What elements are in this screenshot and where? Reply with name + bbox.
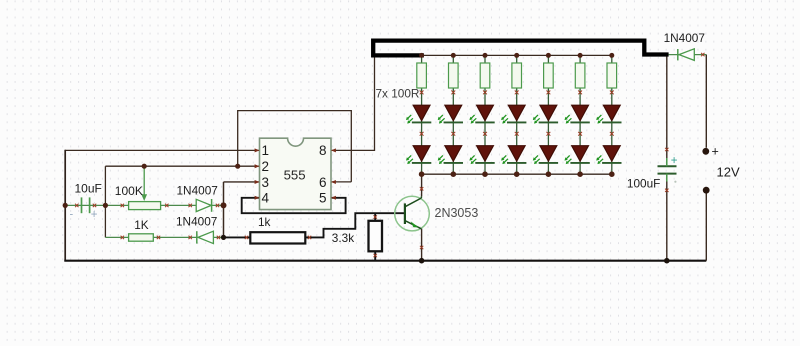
svg-text:4: 4 bbox=[262, 191, 270, 206]
svg-text:2: 2 bbox=[262, 159, 270, 174]
pin tick 8 bbox=[157, 236, 160, 239]
wire C1/R100K row (left) bbox=[65, 204, 223, 206]
label R5 value 3.3k bbox=[332, 231, 354, 245]
label supply 12V bbox=[717, 165, 740, 180]
svg-text:1k: 1k bbox=[258, 215, 271, 229]
pin tick 13 bbox=[374, 215, 377, 218]
wire pin8 to VCC bus bbox=[331, 55, 375, 150]
LED D19 column 5 row 2 bbox=[533, 146, 558, 164]
svg-text:100uF: 100uF bbox=[627, 177, 660, 191]
pin tick column 6 a bbox=[578, 91, 582, 95]
pin tick column 1 a bbox=[420, 91, 424, 95]
wire pin2-to-pin6 over the top bbox=[238, 111, 352, 182]
pin tick 15 bbox=[420, 187, 423, 190]
wire pin1 net: 555 pin1 to left rail bbox=[65, 149, 259, 151]
label D1 value 1N4007 bbox=[177, 184, 218, 198]
wire D3 anode row to +12V rail bbox=[669, 54, 707, 56]
label D2 value 1N4007 bbox=[176, 215, 217, 229]
pin tick 16 bbox=[420, 246, 423, 249]
node junction C2 / ground rail bbox=[664, 258, 670, 264]
label R2 value 100K bbox=[115, 184, 143, 198]
wire R 3.3k bottom lead bbox=[374, 251, 376, 260]
diode D2 1N4007 (points left) bbox=[197, 231, 214, 243]
svg-text:555: 555 bbox=[284, 167, 306, 182]
node junction bottom of column 6 bbox=[577, 171, 583, 177]
node junction pin2 wiper bbox=[142, 164, 147, 169]
pin tick column 4 b bbox=[515, 132, 519, 136]
label U1 555 bbox=[284, 167, 306, 182]
resistor R102 100R body bbox=[449, 63, 459, 88]
node junction pin2 / over-the-top wire bbox=[235, 164, 240, 169]
wire LED column 7 vertical bbox=[611, 55, 613, 174]
svg-text:100K: 100K bbox=[115, 184, 143, 198]
LED D12 column 2 row 1 bbox=[438, 105, 463, 123]
label C2 polarity + bbox=[671, 155, 678, 183]
svg-text:5: 5 bbox=[319, 191, 327, 206]
pin tick 17 bbox=[665, 148, 668, 151]
wire pin6 stub to vertical bbox=[331, 181, 351, 183]
label D3 value 1N4007 bbox=[664, 31, 705, 45]
wire LED column 1 vertical bbox=[421, 55, 423, 174]
pin tick column 2 b bbox=[451, 132, 455, 136]
node junction top of column 3 bbox=[483, 53, 488, 58]
pin tick 10 bbox=[217, 236, 220, 239]
LED D21 column 6 row 2 bbox=[565, 146, 590, 164]
resistor R104 100R body bbox=[512, 63, 522, 88]
node junction top of column 2 bbox=[451, 53, 456, 58]
pin tick 5 bbox=[189, 204, 192, 207]
node junction top of column 4 bbox=[514, 53, 519, 58]
node junction D1 cathode / pin3 vertical bbox=[221, 202, 227, 208]
node junction top of column 5 bbox=[546, 53, 551, 58]
pin 2 of U1 bbox=[255, 159, 269, 174]
LED D23 column 7 row 2 bbox=[596, 146, 621, 164]
node junction bottom of column 3 bbox=[482, 171, 488, 177]
pin tick 19 bbox=[701, 53, 704, 56]
node junction top of column 7 bbox=[609, 53, 614, 58]
supply terminal - node bbox=[703, 187, 710, 194]
wire +12V rail top (diode to + terminal) bbox=[705, 55, 707, 148]
pin tick 14 bbox=[374, 254, 377, 257]
pin tick 11 bbox=[245, 236, 248, 239]
pin 3 of U1 bbox=[255, 175, 269, 190]
LED D17 column 4 row 2 bbox=[501, 146, 526, 164]
pin tick column 4 a bbox=[515, 91, 519, 95]
wire node vertical at diodes (pin3 down) bbox=[223, 182, 225, 238]
pin tick column 7 a bbox=[610, 91, 614, 95]
wire LED column 5 vertical bbox=[547, 55, 549, 174]
wire left rail (pin1 down to ground rail) bbox=[64, 150, 66, 261]
pin tick 1 bbox=[75, 204, 78, 207]
svg-text:-: - bbox=[70, 209, 74, 221]
resistor R4 1k body bbox=[250, 232, 305, 243]
svg-text:+: + bbox=[712, 144, 719, 158]
wire LED column 4 vertical bbox=[516, 55, 518, 174]
label C2 value 100uF bbox=[627, 177, 660, 191]
wire LED column 2 vertical bbox=[452, 55, 454, 174]
node junction left rail / C1 bbox=[63, 203, 68, 208]
wire R 3.3k top lead bbox=[374, 213, 376, 221]
wire VCC thin top wire of LED columns bbox=[375, 54, 612, 56]
svg-text:1N4007: 1N4007 bbox=[177, 184, 218, 198]
pin tick 4 bbox=[165, 204, 168, 207]
wire emitter of Q1 to ground rail bbox=[421, 229, 423, 261]
label C1 polarity - + bbox=[70, 209, 98, 222]
pin tick 3 bbox=[121, 204, 124, 207]
node junction C1 / vertical bbox=[103, 203, 108, 208]
svg-text:1N4007: 1N4007 bbox=[664, 31, 705, 45]
wire pin4-pin5 reset loop bbox=[242, 198, 346, 213]
wire ground bottom rail bbox=[64, 260, 706, 262]
pin tick column 6 b bbox=[578, 132, 582, 136]
LED D18 column 5 row 1 bbox=[533, 105, 558, 123]
wire collector of Q1 to LED bus bbox=[421, 174, 423, 196]
wire LED column 3 vertical bbox=[484, 55, 486, 174]
resistor R3 1K body bbox=[129, 234, 154, 241]
wire 555 output path 1k to base bbox=[306, 213, 405, 237]
resistor R101 100R body bbox=[417, 63, 427, 88]
wire C2 100uF bottom lead bbox=[666, 174, 668, 261]
wire LED column 6 vertical bbox=[579, 55, 581, 174]
pin tick column 5 b bbox=[547, 132, 551, 136]
pin tick column 5 a bbox=[547, 91, 551, 95]
svg-text:+: + bbox=[671, 155, 678, 167]
resistor R103 100R body bbox=[480, 63, 490, 88]
node junction bottom of column 4 bbox=[514, 171, 520, 177]
svg-text:6: 6 bbox=[319, 175, 327, 190]
pin 5 of U1 bbox=[319, 191, 336, 206]
svg-text:+: + bbox=[91, 209, 98, 221]
resistor R106 100R body bbox=[575, 63, 585, 88]
op-amp U1 555 body bbox=[260, 138, 332, 209]
capacitor C2 100uF plates bbox=[658, 158, 677, 182]
wire VCC bus (thick black) bbox=[373, 41, 668, 56]
svg-text:1N4007: 1N4007 bbox=[176, 215, 217, 229]
pin 4 of U1 bbox=[255, 191, 270, 206]
pin tick column 1 b bbox=[420, 132, 424, 136]
svg-text:1: 1 bbox=[262, 143, 270, 158]
svg-text:3.3k: 3.3k bbox=[332, 231, 354, 245]
LED D10 column 1 row 1 bbox=[406, 105, 431, 123]
pin tick column 3 a bbox=[483, 91, 487, 95]
resistor R107 100R body bbox=[607, 63, 617, 88]
LED D14 column 3 row 1 bbox=[469, 105, 494, 123]
node junction D2 anode / R4 bbox=[221, 235, 226, 240]
wire 1K/diode row (left) bbox=[105, 236, 223, 238]
LED D15 column 3 row 2 bbox=[469, 146, 494, 164]
potentiometer R2 100K body bbox=[129, 202, 161, 210]
pin tick 2 bbox=[93, 204, 96, 207]
node junction bottom of column 7 bbox=[609, 171, 615, 177]
wire vertical pin2 to C1/R-1K rows bbox=[104, 166, 106, 237]
node junction bottom of column 2 bbox=[451, 171, 457, 177]
node junction top of column 1 bbox=[419, 53, 424, 58]
LED D20 column 6 row 1 bbox=[565, 105, 590, 123]
wire C2 100uF top lead bbox=[666, 57, 668, 167]
wire pin2 row bbox=[105, 165, 259, 167]
label C1 value 10uF bbox=[75, 182, 102, 196]
LED D13 column 2 row 2 bbox=[438, 146, 463, 164]
diode D3 1N4007 (points left) bbox=[678, 49, 695, 61]
wire -12V rail bottom (terminal to ground) bbox=[705, 190, 707, 260]
label supply + bbox=[712, 144, 719, 158]
node junction top of column 6 bbox=[578, 53, 583, 58]
label resistor group 7x 100R bbox=[376, 87, 420, 101]
pin tick 18 bbox=[665, 189, 668, 192]
pin tick column 7 b bbox=[610, 132, 614, 136]
label R3 value 1K bbox=[134, 218, 149, 232]
pin tick 9 bbox=[189, 236, 192, 239]
svg-text:7x 100R: 7x 100R bbox=[376, 87, 420, 101]
resistor R105 100R body bbox=[544, 63, 554, 88]
node junction emitter / ground rail bbox=[419, 258, 425, 264]
svg-text:1K: 1K bbox=[134, 218, 149, 232]
pin 8 of U1 bbox=[319, 143, 336, 158]
pin 1 of U1 bbox=[255, 143, 269, 158]
pin tick 6 bbox=[216, 204, 219, 207]
potentiometer R2 wiper arrow bbox=[141, 166, 147, 201]
pin tick column 2 a bbox=[451, 91, 455, 95]
wire pin3 row bbox=[224, 181, 260, 183]
svg-text:8: 8 bbox=[319, 143, 327, 158]
pin 6 of U1 bbox=[319, 175, 336, 190]
wire LED cathode bus bbox=[422, 173, 612, 175]
pin tick column 3 b bbox=[483, 132, 487, 136]
node junction bottom of column 5 bbox=[546, 171, 552, 177]
LED D16 column 4 row 1 bbox=[501, 105, 526, 123]
transistor Q1 2N3053 bbox=[395, 196, 430, 231]
resistor R5 3.3k body bbox=[369, 221, 383, 252]
wire R 1k left lead bbox=[224, 236, 251, 238]
LED D11 column 1 row 2 bbox=[406, 146, 431, 164]
supply terminal + node bbox=[702, 148, 709, 155]
pin tick 7 bbox=[121, 236, 124, 239]
pin tick 12 bbox=[308, 236, 311, 239]
diode D1 1N4007 (points right) bbox=[196, 199, 211, 212]
label R4 value 1k bbox=[258, 215, 271, 229]
node junction bottom of column 1 bbox=[419, 171, 425, 177]
capacitor C1 10uF plates bbox=[82, 197, 90, 213]
label Q1 2N3053 bbox=[435, 206, 479, 220]
svg-text:12V: 12V bbox=[717, 165, 740, 180]
svg-text:2N3053: 2N3053 bbox=[435, 206, 479, 220]
svg-text:3: 3 bbox=[262, 175, 270, 190]
LED D22 column 7 row 1 bbox=[596, 105, 621, 123]
svg-text:10uF: 10uF bbox=[75, 182, 102, 196]
